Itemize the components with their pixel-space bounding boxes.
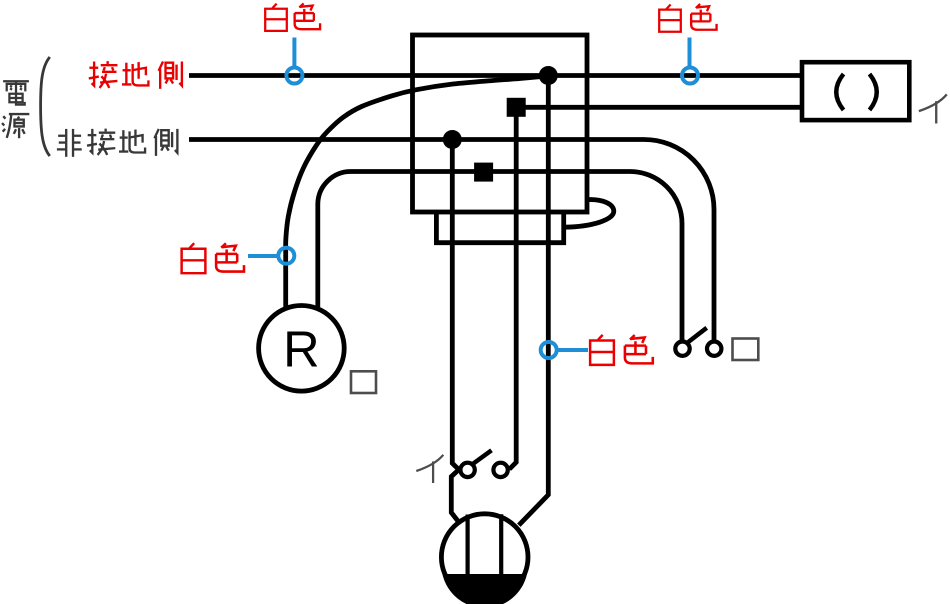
switch contact イ-switch left xyxy=(460,463,474,477)
label □ for right switch xyxy=(733,339,759,361)
switch contact right-switch right xyxy=(707,342,721,356)
white marker top-right: leader line xyxy=(688,38,692,67)
wire A: non-grounded dot to イ switch to ceiling lamp xyxy=(451,140,459,522)
white marker top-right: ring xyxy=(682,68,698,84)
white marker bottom: ring xyxy=(541,342,557,358)
terminal square S1 xyxy=(507,98,526,117)
wire B: terminal S1 down to イ switch right contact xyxy=(509,107,516,469)
wire C: grounded dot down to ceiling lamp (white) xyxy=(519,76,549,526)
label 電源 (power source) xyxy=(2,81,29,138)
label イ at outlet xyxy=(919,94,947,123)
white marker left: leader line xyxy=(248,254,277,258)
label イ at switch xyxy=(416,455,443,483)
wire big curve from grounded dot to R lamp xyxy=(286,76,549,307)
label 白色 left xyxy=(182,243,244,273)
wire non-grounded side with corner to right switch xyxy=(189,140,714,341)
label 白色 top-right xyxy=(659,4,716,32)
terminal square S2 xyxy=(474,163,493,182)
white marker top-left: leader line xyxy=(292,38,296,67)
switch contact right-switch left xyxy=(675,342,689,356)
white marker left: ring xyxy=(278,248,294,264)
svg-text:R: R xyxy=(283,321,320,378)
wire slack loop at box lower right xyxy=(564,200,614,228)
label 非接地側 (non-grounded side) xyxy=(57,129,177,157)
label 白色 top-left xyxy=(265,3,320,30)
switch contact イ-switch right xyxy=(493,463,507,477)
white marker bottom: leader line xyxy=(559,348,589,352)
junction dot on non-grounded wire xyxy=(443,130,462,149)
ceiling lamp circle xyxy=(441,514,528,601)
switch lever イ-switch xyxy=(473,450,491,463)
switch lever right-switch xyxy=(688,328,706,342)
outlet box xyxy=(802,62,909,120)
white marker top-left: ring xyxy=(286,68,302,84)
wire outlet return xyxy=(516,105,802,110)
power source bracket xyxy=(41,57,50,156)
lamp R xyxy=(259,306,345,392)
junction dot on grounded wire xyxy=(539,66,558,85)
outlet right parenthesis xyxy=(870,74,877,110)
wire grounded-side horizontal xyxy=(189,73,802,78)
label 白色 bottom xyxy=(590,335,653,365)
wire R-lamp to right-switch (through box) xyxy=(318,172,682,341)
junction box xyxy=(413,35,588,212)
ceiling lamp inner bar right xyxy=(499,514,503,574)
junction box lower tab xyxy=(436,212,563,243)
outlet left parenthesis xyxy=(836,74,843,110)
ceiling lamp inner bar left xyxy=(466,515,470,575)
label □ for lamp R xyxy=(351,371,376,393)
label 接地側 (grounded side, red) xyxy=(89,61,182,89)
ceiling lamp filled segment xyxy=(442,574,527,604)
